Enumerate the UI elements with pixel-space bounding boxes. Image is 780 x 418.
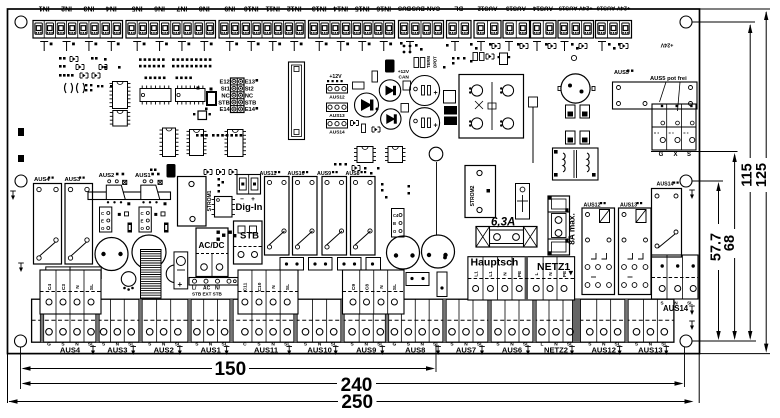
capacitor C8 vertical [174,252,188,289]
svg-text:+24V: +24V [660,42,673,48]
pads above AUS8/AUS9 [334,163,380,175]
svg-text:NC: NC [245,93,254,99]
TERM labels [414,56,438,68]
fuse F1 horizontal [476,227,537,248]
svg-text:AUS4: AUS4 [60,346,81,355]
svg-text:AUS12: AUS12 [477,5,498,12]
transistor Q7 [166,265,184,283]
+24V label [660,42,673,48]
terminal group AUS3 [100,299,136,355]
optocoupler opto3 [392,209,405,238]
IC U2 [110,111,131,127]
heatsink bar [529,97,538,163]
svg-text:AUS7: AUS7 [456,346,476,355]
resistor pad rows [139,58,242,136]
terminal block +24V AUS16 [596,5,632,38]
svg-text:AUS12: AUS12 [329,95,345,101]
svg-text:IN13: IN13 [312,5,327,12]
pads top right area [443,57,473,69]
svg-text:150: 150 [214,359,246,380]
pads left edge [18,128,24,162]
IC U10 [212,197,236,218]
svg-text:AUS5: AUS5 [614,70,629,76]
svg-text:AUS6: AUS6 [502,346,522,355]
pads near opto3 [381,183,410,199]
dimension 240 [22,347,685,396]
terminal block IN13-IN16 [309,5,395,38]
terminal block DL [447,5,472,38]
IC U4 [176,86,206,105]
dimension 125 [754,11,770,353]
svg-text:C3: C3 [61,284,67,290]
svg-text:AUS3: AUS3 [107,346,127,355]
label 6,3A [491,217,515,229]
IC U1 [110,82,131,109]
svg-text:STB: STB [218,100,230,106]
svg-text:+: + [178,280,183,289]
svg-text:X: X [673,152,677,158]
tier block C9 C8 N SL [343,270,405,314]
terminal block AUS14 [531,5,557,38]
svg-text:IN1: IN1 [39,5,50,12]
terminal block AUS12 [474,5,501,38]
svg-text:C9: C9 [351,284,357,290]
capacitor C3 [381,109,401,129]
svg-text:E: E [141,219,144,224]
dimension 250 [9,392,694,413]
wire stubs under input terminal blocks [40,42,392,52]
mounting hole (686,181) [680,175,692,187]
capacitor C5 [410,108,440,138]
svg-text:IN12: IN12 [287,5,302,12]
terminal group AUS10 [302,299,338,355]
electrolytic cap side view [167,164,176,178]
svg-text:N: N [379,285,385,289]
relay AUS10 [288,171,318,255]
IC U3 [140,86,171,105]
svg-text:AUS1: AUS1 [135,173,151,179]
bottom terminal strip body [32,299,674,342]
svg-text:IN9: IN9 [224,5,235,12]
svg-text:AUS13: AUS13 [329,113,345,119]
terminal group AUS11 [242,299,292,355]
relay AUS11 [260,171,290,255]
capacitor C4 [410,76,440,106]
mid-board mounting hole [429,147,443,161]
svg-text:SL: SL [89,284,95,290]
svg-text:C11: C11 [243,282,249,291]
svg-text:C4: C4 [393,213,399,218]
svg-text:CAN: CAN [399,75,410,81]
extension line mid-right hole [692,180,723,182]
pads between AC/DC and STB [217,231,237,241]
capacitor C6 [95,238,128,271]
ground arrow AUS14 [689,306,695,315]
svg-text:AUS1: AUS1 [201,346,222,355]
svg-text:AC/DC: AC/DC [199,241,225,250]
svg-text:PE: PE [562,270,568,277]
diode/rect parts right of caps [444,91,458,126]
terminal group AUS6 [495,299,531,355]
terminal group AUS8 [391,299,441,355]
svg-text:AUS3: AUS3 [65,177,81,183]
svg-text:E13: E13 [245,80,256,86]
optocoupler opto1 [100,207,112,232]
svg-text:AUS8: AUS8 [405,346,425,355]
svg-text:AUS14: AUS14 [657,182,674,188]
terminal group NETZ2 [539,299,575,355]
svg-text:E12: E12 [219,80,229,86]
svg-text:N: N [75,285,81,289]
relay AUS3 [65,177,93,265]
mounting hole (686,341) [680,335,692,347]
svg-text:STB: STB [240,231,259,242]
terminal block IN5-IN8 [126,5,216,38]
svg-text:IN7: IN7 [176,5,187,12]
jumper block AUS13 [327,103,348,119]
svg-text:AUS2: AUS2 [99,173,115,179]
wire stubs and parts under output terminal blocks [400,42,628,54]
svg-text:C10: C10 [257,282,263,291]
optocoupler opto2 [139,207,151,232]
jumper block AUS12 [327,85,348,101]
AUS5 pot frei label [650,76,687,111]
svg-text:SL: SL [285,284,291,290]
svg-text:AUS11: AUS11 [254,346,279,355]
wire section line [436,162,438,235]
bars under relays AUS4/AUS3 [46,267,101,279]
current sensor STROM1 [178,177,214,227]
svg-text:St2: St2 [245,87,254,93]
svg-text:+12V: +12V [329,74,342,80]
svg-text:C: C [243,341,247,347]
svg-text:G: G [659,152,664,158]
terminal block +24V AUS15 [558,5,594,38]
relay AUS14 [652,182,682,258]
svg-text:AUS4: AUS4 [34,177,50,183]
connector Dig-In [237,175,261,204]
transformer T1 [553,148,599,180]
small IC pad [193,108,211,120]
Dig-In label [236,202,263,213]
svg-text:DL: DL [454,5,463,12]
ground arrow left lower [18,263,24,272]
capacitor C7 [132,235,166,269]
small parts near capacitors [351,71,411,133]
svg-text:N: N [548,272,554,276]
svg-text:IN4: IN4 [106,5,117,12]
transistor Q6 [121,272,136,291]
pads near STROM1 [150,169,224,193]
vertical part near Hauptsch [437,256,447,297]
IC U6 [187,130,207,156]
svg-text:Hauptsch: Hauptsch [471,257,519,269]
svg-text:B: B [393,221,396,226]
AC/DC module [196,228,228,277]
relay AUS9 [317,171,347,255]
svg-text:STB: STB [245,100,257,106]
svg-text:E14: E14 [245,107,256,113]
svg-text:STROM2: STROM2 [470,185,476,206]
svg-text:S: S [687,152,691,158]
extension line top-right hole [692,21,755,23]
svg-text:AUS5 pot frei: AUS5 pot frei [650,76,687,82]
svg-text:IN16: IN16 [376,5,391,12]
relay AUS5 [613,70,698,110]
svg-text:AUS12: AUS12 [591,346,615,355]
header connector E12/E13 [218,78,258,113]
svg-text:AUS13: AUS13 [638,346,662,355]
svg-text:C4: C4 [47,284,53,290]
svg-text:PE: PE [517,270,523,277]
svg-text:IN11: IN11 [265,5,280,12]
terminal group AUS13 [633,299,669,355]
svg-text:AUS9: AUS9 [356,346,376,355]
svg-text:AUS14: AUS14 [532,5,553,12]
tier block C4 C3 N SL [40,270,101,314]
svg-text:125: 125 [754,163,770,187]
terminal group AUS7 [449,299,485,355]
svg-text:NETZ2: NETZ2 [544,346,568,355]
crystal chip [197,87,217,106]
terminal group AUS1 [194,299,230,355]
bars under relays AUS11-AUS8 [280,258,381,271]
svg-text:L1: L1 [488,271,494,277]
svg-text:AUS10: AUS10 [307,346,331,355]
svg-text:L1: L1 [473,271,479,277]
svg-text:+24V AUS16: +24V AUS16 [596,5,631,11]
svg-text:G: G [393,341,397,347]
terminal block AUS13 [503,5,530,38]
heatsink fins [141,250,162,299]
terminal group AUS4 [46,299,96,355]
relay AUS8 [346,171,376,255]
diode row D1 D2 D3 [204,170,237,175]
capacitor pads under Q5 [566,105,590,144]
jumper block AUS14 [327,120,348,136]
svg-text:N: N [271,285,277,289]
terminal block AUS14 [652,255,699,313]
terminal block IN1-IN4 [33,5,123,38]
connector STB EXT STB [189,278,238,297]
svg-text:IN10: IN10 [244,5,259,12]
terminal block IN9-IN12 [219,5,305,38]
SSR bar AUS2/AUS1 [88,192,171,200]
rect with pads near Hauptsch [406,273,429,286]
svg-text:TERM: TERM [426,56,431,68]
svg-text:68: 68 [722,235,738,251]
current sensor STROM2 [465,166,496,218]
svg-text:+12V: +12V [398,69,410,75]
svg-text:IN3: IN3 [83,5,94,12]
svg-text:N: N [503,272,509,276]
IC U7 [225,130,247,157]
svg-text:AUS2: AUS2 [154,346,174,355]
capacitor C1 [355,93,379,117]
dimension 150 [21,345,437,389]
+12V CAN label [398,69,410,81]
ground arrow left middle [10,191,16,200]
svg-text:STB EXT STB: STB EXT STB [192,292,223,297]
svg-text:DPDT: DPDT [433,56,438,68]
dimension 57.7 [708,182,724,340]
extension line bottom-right hole [692,340,756,342]
electrolytic marker [385,60,395,73]
svg-text:IN5: IN5 [132,5,143,12]
svg-text:BUS: BUS [398,5,411,12]
capacitor C9 [387,236,420,269]
terminal block BUS [398,5,444,38]
part above fuse [516,184,530,220]
dimension 115 [739,24,755,340]
svg-text:+24V AUS15: +24V AUS15 [558,5,593,11]
svg-text:250: 250 [341,392,373,413]
STB module [234,221,263,264]
svg-text:AUS13: AUS13 [505,5,526,12]
power module [459,75,524,139]
svg-text:O: O [101,226,105,231]
connector part under DL [473,53,510,65]
terminal group AUS9 [349,299,385,355]
svg-text:L: L [534,272,540,275]
Hauptsch / NETZ1 block [468,257,575,301]
fuse F2 vertical [548,196,570,255]
svg-text:8A max.: 8A max. [567,213,577,245]
svg-text:O: O [141,226,145,231]
mounting hole (21,22) [15,16,27,28]
svg-text:Dig-In: Dig-In [236,202,263,213]
mounting hole (21,181) [15,175,27,187]
relay AUS12 [582,202,615,295]
IC U5 [160,128,179,157]
connector AUS5 pot frei [652,104,696,150]
svg-text:SL: SL [392,284,398,290]
transistor Q5 (TO-3 can) [558,55,595,103]
terminal group AUS12 [587,299,623,355]
tier block C11 C10 N SL [238,270,298,314]
svg-text:IN6: IN6 [154,5,165,12]
svg-text:IN14: IN14 [333,5,348,12]
IC U9 [385,147,406,163]
svg-text:E14: E14 [219,107,230,113]
svg-text:C8: C8 [364,284,370,290]
svg-text:+: + [434,90,438,97]
mounting hole (686,22) [680,16,692,28]
svg-text:St1: St1 [221,87,231,93]
svg-text:E: E [101,219,104,224]
svg-text:115: 115 [739,163,755,186]
ground arrow right lower [689,321,695,330]
svg-text:IN2: IN2 [61,5,72,12]
SSR AUS1 [135,173,167,206]
svg-text:CAN-BUS: CAN-BUS [412,5,441,12]
SSR AUS2 [99,173,131,206]
relay AUS13 [619,202,652,295]
+12V label and pads [327,74,343,82]
resistor/diode cluster upper-left [59,57,121,94]
node line G X S [651,152,738,158]
svg-text:STROM1: STROM1 [207,190,213,211]
label 8A max [567,213,577,245]
mounting hole (20.5,341) [15,335,27,347]
svg-text:G: G [47,341,51,347]
small rects beside optocouplers [118,212,169,233]
capacitor C2 [379,80,400,101]
svg-text:IN8: IN8 [199,5,210,12]
svg-text:AUS14: AUS14 [329,130,345,136]
terminal group AUS2 [146,299,182,355]
capacitor C10 [422,235,455,268]
edge connector strip [289,62,305,140]
svg-text:AUS14: AUS14 [663,304,689,313]
dimension 68 [722,153,738,340]
svg-text:NC: NC [221,93,230,99]
ground arrow right upper [689,190,695,199]
relay AUS4 [34,177,62,265]
svg-text:+: + [434,123,438,130]
svg-text:IN15: IN15 [355,5,370,12]
IC U8 [354,147,376,163]
